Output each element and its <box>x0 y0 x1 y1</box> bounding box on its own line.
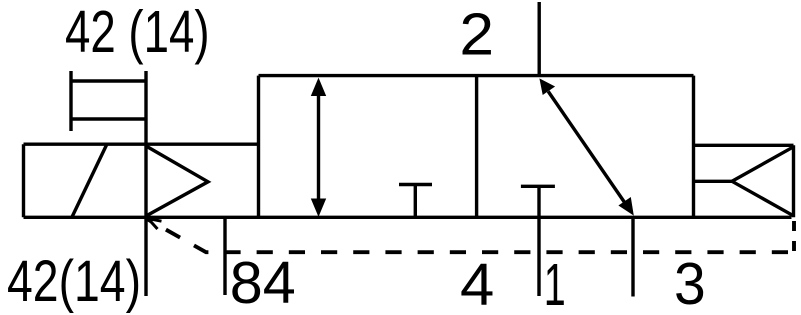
valve position divider <box>475 76 478 218</box>
bottom edge wire <box>24 216 792 219</box>
dashed line arrowhead at valve corner <box>148 219 162 230</box>
dashed pilot signal line <box>148 218 794 253</box>
port 3 wire <box>631 217 634 296</box>
svg-text:42(14): 42(14) <box>7 249 141 314</box>
flow arrow shaft right box <box>548 91 625 203</box>
pilot port bracket symbol 42(14) <box>71 71 146 131</box>
pilot triangle <box>146 146 208 216</box>
pilot box right edge <box>792 145 795 217</box>
arrowheads left box vertical arrow <box>311 78 326 217</box>
svg-text:84: 84 <box>230 250 296 315</box>
svg-text:42 (14): 42 (14) <box>65 0 210 65</box>
port 84 wire <box>223 217 226 295</box>
pilot box top edge <box>694 144 794 147</box>
port 2 wire <box>538 2 541 76</box>
wire pilot line 42(14) vertical <box>144 71 147 296</box>
closed port T left box (port 4) <box>399 185 432 218</box>
pilot box center line <box>694 180 733 183</box>
pilot box triangle <box>732 147 794 216</box>
wire connector to valve body top <box>146 142 259 145</box>
closed port T right box with port 1 wire <box>521 186 555 296</box>
solenoid coil box <box>24 144 147 217</box>
arrowheads right box diagonal arrow <box>539 78 633 215</box>
svg-text:1: 1 <box>544 252 566 315</box>
solenoid slash <box>72 145 107 217</box>
svg-text:2: 2 <box>459 2 494 68</box>
svg-text:3: 3 <box>674 251 706 315</box>
svg-text:4: 4 <box>460 252 494 315</box>
flow arrow shaft left box <box>317 94 320 201</box>
valve body outline <box>259 76 694 218</box>
